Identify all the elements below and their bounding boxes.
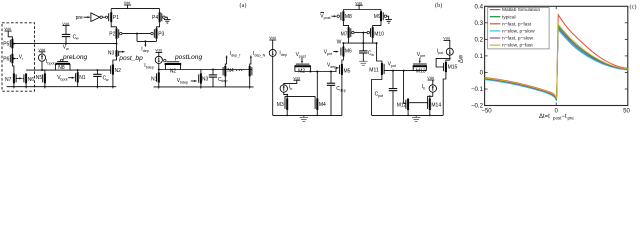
power Vdd (inside dashed box): [4, 27, 11, 35]
svg-text:M8: M8: [345, 14, 352, 20]
ellipsis (repeated taps): [236, 70, 242, 71]
node Vpost label (b): [296, 52, 306, 63]
svg-text:bpot: bpot: [47, 62, 54, 66]
svg-text:0.3: 0.3: [475, 20, 484, 27]
wire Idep rail down: [272, 56, 274, 115]
curve n-fast p-slow (purple): [485, 27, 628, 100]
transistor P6: [3, 48, 18, 63]
svg-text:postLong: postLong: [174, 54, 202, 61]
svg-text:P2: P2: [109, 32, 115, 38]
svg-text:0.2: 0.2: [475, 37, 484, 44]
svg-text:0.4: 0.4: [475, 4, 484, 11]
transistor N6: [23, 73, 35, 83]
ground rail (a right): [154, 86, 254, 89]
svg-text:P6: P6: [3, 56, 9, 62]
svg-text:M11: M11: [369, 67, 379, 73]
transistor N5: [36, 73, 45, 83]
svg-text:pre: pre: [568, 116, 575, 121]
node Vpot label: [388, 62, 396, 68]
x tick labels: [481, 108, 630, 115]
svg-text:n−fast, p−fast: n−fast, p−fast: [502, 21, 532, 27]
capacitor Cw (pre branch): [93, 70, 109, 87]
transistor N4: [223, 66, 234, 87]
node pre (input): [76, 15, 91, 21]
svg-text:N2: N2: [170, 69, 177, 75]
svg-text:M4: M4: [319, 102, 326, 108]
svg-text:N7: N7: [5, 77, 12, 83]
node Vr label: [19, 55, 24, 61]
wire M12-M14 connector: [409, 102, 427, 104]
node Vpre input: [324, 50, 339, 56]
transistor M8: [337, 10, 352, 22]
transistor M10: [367, 21, 384, 43]
ground (M9 gate): [385, 20, 392, 24]
node Idep_f arrow: [225, 51, 241, 66]
svg-text:n−slow, p−fast: n−slow, p−fast: [502, 43, 533, 49]
node Vpost-bar input: [320, 13, 337, 21]
wire postLong row: [159, 69, 252, 71]
svg-text:n−fast, p−slow: n−fast, p−slow: [502, 36, 533, 42]
svg-text:M10: M10: [374, 31, 384, 37]
svg-text:pre: pre: [327, 52, 332, 56]
transistor N1 (pre): [75, 70, 86, 87]
transistor P2: [109, 28, 122, 39]
ground (right cluster): [412, 115, 420, 121]
wire P6 to N7: [12, 63, 14, 73]
svg-text:Matlab Simulation: Matlab Simulation: [502, 7, 540, 13]
curve n-fast p-fast (red): [485, 15, 628, 98]
svg-text:post: post: [324, 16, 331, 20]
current source Idep (b): [269, 36, 287, 57]
svg-text:bpot: bpot: [60, 77, 67, 81]
svg-text:N2: N2: [115, 68, 122, 74]
inverter (pre buffer): [91, 13, 108, 22]
ground rail (a left): [7, 83, 117, 89]
svg-text:pre: pre: [76, 15, 83, 21]
wire gate cross-couple: [122, 33, 157, 42]
svg-text:pot: pot: [391, 64, 396, 68]
svg-text:w: w: [106, 78, 109, 82]
wire M15 diode tie: [436, 55, 451, 67]
svg-text:post_bp: post_bp: [118, 55, 143, 62]
transistor N3 (postLong): [199, 70, 209, 87]
svg-text:N4: N4: [227, 68, 234, 74]
wire M6 to M5: [342, 57, 344, 64]
curve typical (green): [485, 26, 628, 100]
node Vdep label: [327, 63, 339, 69]
wire Ibdep down: [158, 64, 160, 73]
node Vbdep label: [177, 78, 198, 84]
current source Ib (right cluster): [422, 76, 437, 92]
transistor M7: [341, 27, 354, 38]
wire Vdep row: [295, 68, 336, 73]
power Vdd above Cw: [62, 22, 69, 35]
transistor M11: [369, 63, 384, 116]
ground (left cluster): [300, 115, 308, 121]
plot (c) STDP curves: [459, 3, 637, 120]
svg-text:0: 0: [555, 108, 559, 115]
curve n-slow p-fast (yellow): [485, 24, 628, 99]
transistor M2 (lateral): [294, 64, 311, 74]
legend box: [488, 7, 549, 49]
svg-text:preLong: preLong: [62, 54, 88, 61]
transistor M15: [443, 62, 457, 116]
svg-text:−50: −50: [481, 108, 492, 115]
transistor M3: [277, 98, 287, 115]
wire mirror gate tie: [354, 32, 367, 44]
transistor M12: [397, 99, 408, 116]
transistor M5: [340, 64, 351, 116]
svg-text:M5: M5: [344, 69, 351, 75]
capacitor Cw (weight cap): [62, 34, 79, 43]
ground rail (b right cluster): [372, 115, 444, 117]
svg-text:dep: dep: [221, 79, 227, 83]
transistor N1 (postLong branch): [151, 72, 159, 87]
node Idep_N arrow: [250, 51, 266, 66]
transistor P4: [152, 9, 167, 23]
svg-text:W: W: [337, 40, 342, 46]
svg-text:pot: pot: [378, 94, 383, 98]
dashed box (synapse core): [2, 23, 35, 91]
wire M14 diode tie: [428, 92, 433, 99]
ground rail (b left cluster): [273, 115, 342, 117]
transistor N7: [5, 73, 23, 83]
svg-text:w: w: [371, 53, 374, 57]
capacitor Cdep (b): [327, 72, 346, 116]
curve n-slow p-slow (cyan): [485, 30, 628, 101]
wire mirror tie M3-M4: [285, 97, 315, 100]
y tick labels: [471, 4, 484, 110]
power Vdd rail (b): [343, 1, 381, 9]
svg-text:M14: M14: [431, 102, 441, 108]
transistor N (repeated tap): [250, 66, 252, 87]
svg-text:M6: M6: [345, 49, 352, 55]
svg-text:pre: pre: [420, 54, 425, 58]
svg-text:M12: M12: [397, 102, 407, 108]
svg-text:N1: N1: [79, 75, 86, 81]
svg-text:(b): (b): [435, 2, 442, 9]
schematic (b): [269, 1, 392, 115]
svg-text:M7: M7: [341, 31, 348, 37]
svg-text:b: b: [423, 86, 425, 90]
transistor P5: [3, 36, 16, 49]
transistor P3: [151, 22, 165, 41]
svg-text:dep: dep: [281, 53, 287, 57]
svg-text:0.1: 0.1: [475, 53, 484, 60]
node Vbpot label: [57, 75, 75, 81]
svg-text:dep_f: dep_f: [231, 54, 241, 58]
transistor N2 (post_bp): [111, 57, 121, 87]
current source Ibdep: [144, 49, 162, 70]
svg-text:N3: N3: [108, 51, 115, 57]
svg-text:dep: dep: [330, 65, 336, 69]
svg-text:P4: P4: [152, 15, 158, 21]
axis ticks: [485, 6, 628, 105]
wire P2 drain down: [116, 39, 118, 50]
wire Ibpot to N5 drain: [42, 61, 45, 73]
transistor M14: [428, 99, 442, 116]
svg-text:50: 50: [623, 108, 630, 115]
svg-text:M9: M9: [374, 14, 381, 20]
svg-text:b: b: [290, 87, 292, 91]
svg-text:P5: P5: [3, 41, 9, 47]
transistor M9: [374, 10, 389, 22]
wire M12 gate feed: [404, 71, 406, 104]
svg-text:M15: M15: [448, 65, 458, 71]
node Idep (a) with arrow: [141, 40, 149, 53]
svg-text:N3: N3: [202, 77, 209, 83]
svg-text:(c): (c): [630, 3, 637, 10]
svg-text:dep_N: dep_N: [254, 54, 265, 58]
svg-text:N5: N5: [36, 75, 43, 81]
capacitor Cpot: [375, 71, 398, 116]
node W: [337, 38, 378, 46]
wire M8 to M7: [343, 21, 348, 27]
curve Matlab Simulation (blue): [485, 29, 628, 101]
transistor P1: [109, 9, 120, 23]
power Vdd rail (a): [111, 1, 159, 8]
svg-text:dep: dep: [143, 49, 149, 53]
svg-text:bdep: bdep: [180, 81, 188, 85]
svg-text:P3: P3: [158, 32, 164, 38]
wire Vpot row: [384, 70, 426, 72]
svg-text:w: w: [66, 47, 69, 51]
wire Ib to M3 diode node: [284, 92, 288, 98]
axis label x: [539, 114, 574, 121]
svg-text:N6: N6: [28, 77, 35, 83]
wire W to M11 drain: [377, 43, 382, 63]
capacitor Cdep (a): [209, 70, 228, 87]
transistor N3 (post_bp): [108, 50, 125, 57]
ground (under Cw b): [359, 61, 367, 65]
svg-text:pot: pot: [438, 51, 443, 55]
svg-text:Δw: Δw: [459, 54, 465, 63]
transistor M6: [341, 43, 352, 56]
transistor N2 (postLong, lateral): [164, 59, 182, 74]
svg-text:typical: typical: [502, 14, 516, 20]
ground (P4 gate): [164, 19, 171, 23]
current source Ipot: [437, 37, 454, 56]
capacitor Cw (b) with ground: [359, 43, 374, 61]
svg-text:P1: P1: [113, 15, 119, 21]
node Vw: [63, 43, 69, 51]
current source Ibpot: [38, 48, 54, 66]
plot axes box: [485, 6, 628, 105]
transistor N8 (preLong, lateral): [55, 59, 70, 71]
svg-text:M13: M13: [416, 68, 426, 74]
wire node Vw row: [14, 43, 116, 45]
wire preLong row: [26, 69, 111, 71]
svg-text:w: w: [76, 37, 79, 41]
schematic (a): [2, 22, 117, 91]
svg-text:M3: M3: [277, 102, 284, 108]
node Vpre2 input: [417, 52, 426, 64]
transistor M4: [315, 72, 326, 116]
transistor M13 (lateral): [413, 64, 427, 74]
current source Ib (left cluster): [280, 76, 300, 92]
svg-text:−t: −t: [562, 114, 568, 120]
svg-text:n−slow, p−slow: n−slow, p−slow: [502, 29, 535, 35]
svg-text:N8: N8: [58, 65, 65, 71]
svg-text:dep: dep: [340, 88, 346, 92]
svg-text:(a): (a): [240, 2, 247, 9]
svg-text:Δt=t: Δt=t: [539, 114, 550, 120]
svg-text:−0.1: −0.1: [471, 86, 484, 93]
wire P1 to P2: [111, 22, 116, 28]
svg-text:bdep: bdep: [146, 65, 154, 69]
